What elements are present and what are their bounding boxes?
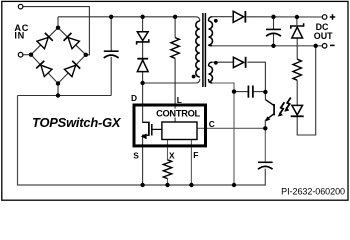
output filter capacitor C2 (polarized) bbox=[266, 29, 281, 36]
wire secondary top to output diode bbox=[212, 16, 232, 18]
transformer T1 primary winding bbox=[196, 21, 200, 77]
DC output terminal + bbox=[322, 15, 327, 20]
bridge diode D2 (right AC to DC+) bbox=[64, 33, 80, 49]
label - bbox=[330, 44, 335, 46]
svg-text:D: D bbox=[131, 93, 137, 103]
wire LED cathode loop to DC OUT- bbox=[297, 46, 316, 135]
wire zener/feedback chain bbox=[296, 17, 298, 25]
bulk capacitor C1 (input filter, polarized) bbox=[104, 51, 119, 58]
polarity dot secondary bbox=[214, 19, 218, 23]
wire bias winding to bias diode bbox=[212, 61, 233, 63]
wire D pin vertical bbox=[142, 83, 144, 123]
bias diode D7 bbox=[233, 57, 245, 68]
clamp blocking diode D5 (cathode up) bbox=[137, 59, 148, 72]
wire clamp / drain node column bbox=[142, 17, 144, 32]
svg-text:X: X bbox=[169, 150, 175, 160]
wire L pin column bbox=[174, 17, 176, 38]
wire secondary return (DC OUT -) bbox=[212, 45, 322, 47]
bridge diode D3 (DC- to left AC) bbox=[36, 61, 52, 77]
wire C pin bypass cap leads bbox=[264, 128, 266, 162]
wire AC neutral: terminal to bridge left corner bbox=[23, 54, 31, 56]
label CONTROL bbox=[155, 109, 201, 118]
U1 internal MOSFET source arrow bbox=[141, 134, 147, 140]
wire DC+ rail into transformer primary top bbox=[58, 17, 200, 21]
output zener VR2 (cathode up) bbox=[291, 23, 304, 38]
output diode D6 bbox=[233, 11, 245, 23]
U1 internal MOSFET drain jog bbox=[143, 122, 149, 135]
svg-text:IN: IN bbox=[14, 31, 25, 41]
wire AC line top: terminal to bridge right corner bbox=[23, 7, 89, 55]
op-amp U1 TOPSwitch-GX IC outline bbox=[134, 105, 206, 146]
U1 internal MOSFET channel bar bbox=[148, 122, 150, 136]
clamp zener VR1 (TVS, anode at rail) bbox=[137, 32, 149, 45]
wire ground loop left and bottom bus bbox=[18, 96, 266, 186]
svg-text:PI-2632-060200: PI-2632-060200 bbox=[281, 186, 345, 196]
wire bridge top to DC+ rail bbox=[57, 17, 59, 28]
X pin resistor R3 bbox=[163, 160, 171, 179]
svg-text:L: L bbox=[177, 95, 182, 105]
transformer core bbox=[202, 13, 204, 87]
transformer T1 secondary winding bbox=[209, 17, 213, 21]
U1 internal control block bbox=[162, 122, 197, 140]
wire bulk cap bottom lead bbox=[110, 57, 112, 96]
wire X pin column bbox=[167, 140, 169, 161]
svg-text:S: S bbox=[133, 150, 139, 160]
svg-text:TOPSwitch-GX: TOPSwitch-GX bbox=[32, 115, 122, 130]
label + bbox=[330, 14, 335, 19]
bridge diode D4 (DC- to right AC) bbox=[64, 61, 80, 77]
feedback resistor R1 bbox=[293, 59, 301, 80]
svg-text:F: F bbox=[193, 150, 198, 160]
wire output cap leads bbox=[273, 17, 275, 29]
optocoupler LED bbox=[291, 105, 304, 116]
wire bulk cap top lead bbox=[110, 17, 112, 51]
line sense resistor R2 (L pin) bbox=[171, 38, 179, 59]
svg-text:C: C bbox=[209, 119, 215, 129]
optocoupler phototransistor Q1 bbox=[265, 92, 274, 128]
wire bias cap leads bbox=[234, 91, 248, 93]
polarity dot bias bbox=[214, 61, 218, 65]
U1 internal MOSFET gate bar bbox=[151, 124, 153, 136]
DC output terminal - bbox=[322, 44, 327, 49]
wire S pin vertical bbox=[142, 135, 144, 185]
AC input terminal top bbox=[18, 4, 23, 9]
wire bridge arms (diamond) bbox=[31, 28, 86, 55]
bias capacitor C3 bbox=[248, 86, 253, 98]
svg-text:CONTROL: CONTROL bbox=[156, 108, 200, 118]
wire F pin column bbox=[190, 140, 192, 186]
optocoupler light arrows bbox=[278, 98, 291, 117]
wire drain node to primary bottom bbox=[143, 79, 200, 83]
wire C pin line bbox=[197, 127, 265, 129]
wire output diode to DC OUT+ bbox=[247, 16, 323, 18]
AC input terminal bottom bbox=[18, 52, 23, 57]
C pin bypass capacitor C4 bbox=[258, 162, 273, 169]
transformer T1 bias winding bbox=[209, 62, 213, 66]
wire primary return rail bbox=[18, 95, 112, 97]
wire bridge bottom stub bbox=[57, 84, 59, 96]
wire bias return bbox=[212, 83, 234, 185]
bridge diode D1 (lower-left AC to DC+) bbox=[37, 33, 53, 49]
junction dots bbox=[56, 26, 60, 30]
U1 internal MOSFET gate lead bbox=[152, 128, 162, 130]
wire bias diode to opto collector column bbox=[247, 62, 265, 92]
polarity dot primary bbox=[192, 75, 196, 79]
svg-text:OUT: OUT bbox=[314, 31, 333, 41]
